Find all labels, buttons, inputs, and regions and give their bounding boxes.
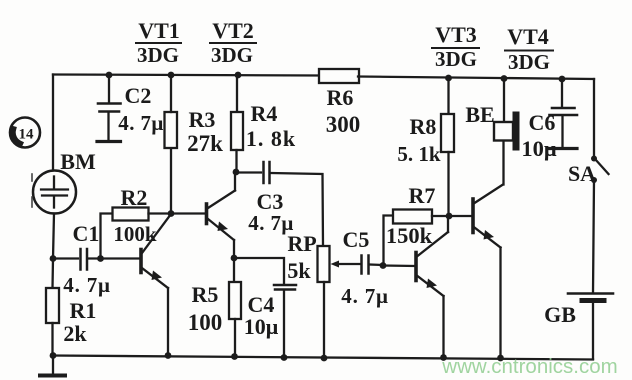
svg-text:14: 14: [19, 127, 35, 143]
node F (C5 / R7 / VT3 base): [380, 262, 387, 269]
node C4 bottom: [281, 354, 288, 361]
wire battery to bottom rail: [592, 303, 594, 359]
node VT1 emitter at rail: [165, 352, 172, 359]
svg-text:C2: C2: [125, 83, 152, 108]
svg-text:4. 7μ: 4. 7μ: [118, 111, 163, 135]
svg-text:10μ: 10μ: [244, 314, 279, 339]
wire bottom ground rail: [52, 356, 593, 360]
svg-text:R2: R2: [121, 185, 148, 210]
svg-text:5. 1k: 5. 1k: [397, 142, 441, 166]
wire R3 bottom stem: [170, 148, 172, 214]
svg-text:150k: 150k: [386, 223, 433, 248]
resistor R3: [165, 107, 224, 156]
transistor VT1: [141, 214, 171, 356]
battery GB: [544, 294, 613, 328]
svg-text:R7: R7: [409, 183, 436, 208]
wire R2 right lead: [149, 212, 172, 214]
svg-text:R3: R3: [189, 107, 216, 132]
resistor R6: [319, 69, 360, 137]
capacitor C5: [341, 227, 388, 308]
node C (R2 / R3 / VT1 collector / VT2 base): [168, 210, 175, 217]
resistor R7: [384, 183, 450, 266]
svg-text:C5: C5: [343, 227, 370, 252]
svg-text:R5: R5: [192, 282, 219, 307]
node R3 top: [168, 72, 175, 79]
svg-text:www.cntronics.com: www.cntronics.com: [441, 355, 617, 378]
svg-text:VT1: VT1: [138, 18, 180, 43]
capacitor C3: [248, 162, 293, 235]
svg-text:100: 100: [188, 310, 223, 335]
svg-text:5k: 5k: [287, 258, 311, 283]
transistor VT3: [416, 216, 448, 358]
svg-text:BE: BE: [465, 102, 494, 127]
node 14 (figure number badge): [10, 118, 40, 148]
node B (C1 / R2 / VT1 base junction): [97, 255, 104, 262]
wire C3 to RP: [272, 173, 324, 246]
svg-text:BM: BM: [60, 149, 96, 174]
node RP bottom: [321, 355, 328, 362]
transistor VT4: [473, 141, 504, 359]
label VT3/3DG: [432, 22, 479, 71]
node D (VT2 emitter / R5 / C4): [231, 255, 238, 262]
svg-text:VT3: VT3: [435, 22, 477, 47]
ground: [40, 352, 65, 375]
resistor R8: [397, 75, 454, 216]
svg-text:C6: C6: [529, 110, 556, 135]
wire node A to C1: [53, 257, 78, 259]
wire VT3 base: [383, 264, 415, 267]
earphone BE: [465, 75, 519, 150]
microphone BM: [32, 149, 96, 214]
node A (mic / R1 / C1 junction): [50, 255, 57, 262]
wire left vertical from rail to microphone: [52, 75, 54, 171]
wire R2 left lead: [101, 214, 113, 259]
svg-text:R4: R4: [251, 101, 278, 126]
wire C1 to VT1 base: [89, 257, 140, 259]
wire node E to C3: [236, 171, 261, 173]
svg-text:1. 8k: 1. 8k: [246, 126, 296, 151]
svg-text:GB: GB: [544, 302, 576, 327]
node VT4 emitter at rail: [497, 355, 504, 362]
svg-text:R6: R6: [327, 85, 354, 110]
svg-text:27k: 27k: [187, 131, 223, 156]
switch SA: [568, 156, 609, 187]
svg-text:2k: 2k: [63, 321, 87, 346]
capacitor C6: [521, 76, 577, 161]
wire right vertical to switch: [593, 79, 595, 158]
label VT2/3DG: [210, 18, 256, 67]
wire C5 to node F: [370, 263, 383, 266]
node VT3 emitter at rail: [440, 354, 447, 361]
svg-text:SA: SA: [568, 161, 596, 186]
svg-text:VT2: VT2: [212, 18, 254, 43]
svg-text:RP: RP: [287, 231, 316, 256]
capacitor C1: [63, 221, 110, 297]
wire top supply rail left segment: [53, 75, 321, 76]
wire node D to C4: [234, 258, 284, 284]
svg-text:R8: R8: [410, 114, 437, 139]
svg-text:300: 300: [326, 112, 361, 137]
resistor R4: [231, 72, 296, 172]
node E (R4 / VT2 collector / C3): [233, 169, 240, 176]
capacitor C4: [244, 285, 296, 358]
wire R3 top stem: [170, 75, 172, 112]
capacitor C2: [97, 72, 164, 142]
resistor R5: [188, 258, 241, 356]
wire VT2 base: [171, 212, 205, 214]
resistor R2: [113, 185, 157, 246]
svg-text:4. 7μ: 4. 7μ: [341, 284, 388, 308]
svg-text:3DG: 3DG: [137, 43, 179, 67]
svg-text:4. 7μ: 4. 7μ: [63, 273, 110, 297]
transistor VT2: [207, 172, 236, 259]
wire top supply rail right segment: [358, 77, 594, 80]
potentiometer RP: [287, 231, 361, 358]
svg-text:3DG: 3DG: [508, 50, 550, 74]
svg-text:C1: C1: [73, 221, 100, 246]
svg-text:3DG: 3DG: [435, 47, 477, 71]
label VT4/3DG: [505, 24, 553, 74]
resistor R1: [46, 259, 96, 357]
svg-text:VT4: VT4: [507, 24, 549, 49]
wire switch to battery: [593, 180, 594, 293]
label VT1/3DG: [136, 18, 181, 67]
node G (R7 / R8 / VT3 collector / VT4 base): [446, 213, 453, 220]
svg-text:10μ: 10μ: [521, 136, 557, 161]
wire microphone to node A: [53, 214, 54, 259]
svg-text:R1: R1: [70, 298, 97, 323]
svg-text:3DG: 3DG: [211, 43, 253, 67]
wire VT4 base: [449, 215, 471, 217]
node R5 bottom: [231, 353, 238, 360]
